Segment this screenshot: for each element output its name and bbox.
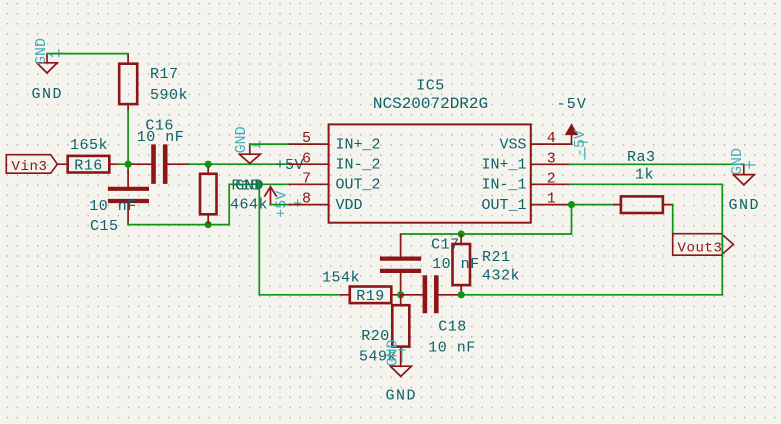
wire pin5 GND to IC [250, 143, 290, 145]
resistor R19 [322, 270, 400, 306]
wire Ra3 to Vout3 [672, 205, 674, 234]
wire OUT_1 down to C17 top rail [401, 205, 572, 234]
resistor R21 [453, 235, 521, 294]
svg-text:IN+_1: IN+_1 [481, 157, 526, 174]
svg-text:6: 6 [302, 150, 311, 167]
junction node A [125, 161, 132, 168]
svg-text:GND: GND [386, 387, 418, 404]
power -5V pin number 1 mark [580, 142, 588, 159]
junction R18 bottom node [205, 221, 212, 228]
svg-text:Vin3: Vin3 [12, 159, 48, 175]
pin 3 IN+_1 [481, 150, 570, 173]
svg-text:OUT_1: OUT_1 [481, 197, 526, 214]
svg-text:7: 7 [302, 170, 311, 187]
svg-text:R17: R17 [150, 66, 179, 83]
wire IC pin 1 to Ra3 [570, 204, 615, 206]
hierarchical label Vin3 [6, 155, 57, 175]
pin 7 OUT_2 [290, 170, 381, 193]
resistor R16 [58, 137, 119, 174]
capacitor C18 [401, 278, 476, 357]
svg-text:GND: GND [233, 126, 250, 153]
wire R16 to node A [118, 163, 133, 165]
svg-text:-5V: -5V [557, 96, 588, 113]
wire OUT_2 node down to feedback rail [259, 184, 341, 294]
svg-text:432k: 432k [482, 267, 520, 284]
svg-text:GND: GND [385, 339, 402, 366]
svg-text:10 nF: 10 nF [428, 340, 476, 357]
svg-text:GND: GND [32, 86, 64, 103]
svg-text:5: 5 [302, 130, 311, 147]
svg-text:R16: R16 [74, 157, 103, 174]
svg-text:C18: C18 [438, 319, 467, 336]
ground R20 pin number 1 mark [399, 349, 405, 363]
svg-text:8: 8 [302, 191, 311, 208]
capacitor C15 [89, 163, 147, 235]
ground right pin number 1 mark [744, 162, 755, 169]
svg-text:R19: R19 [356, 288, 385, 305]
svg-text:NCS20072DR2G: NCS20072DR2G [373, 95, 488, 113]
svg-text:590k: 590k [150, 87, 188, 104]
svg-text:165k: 165k [70, 137, 108, 154]
wire R17 bottom to node A [127, 111, 129, 170]
svg-text:4: 4 [547, 130, 556, 147]
resistor Ra3 [614, 196, 673, 213]
wire GND to R17 top [47, 54, 128, 57]
resistor R17 [119, 56, 188, 113]
wire +5V to IC pin 8 [271, 204, 290, 206]
junction OUT_1 node [568, 201, 575, 208]
junction OUT_2 node [256, 181, 263, 188]
pin 2 IN-_1 [481, 170, 570, 193]
resistor R18 [200, 164, 268, 223]
wire IC pin 3 to ground right [570, 163, 744, 165]
junction node B [205, 161, 212, 168]
junction R19-R20-C18 node [397, 291, 404, 298]
svg-text:Vout3: Vout3 [678, 240, 723, 256]
pin 4 VSS [499, 130, 571, 153]
resistor R20 [359, 296, 409, 367]
capacitor C17 [382, 235, 480, 294]
svg-text:VDD: VDD [336, 197, 363, 214]
svg-text:IN-_1: IN-_1 [481, 177, 526, 194]
wire OUT_2 node to IC pin 7 [259, 183, 290, 185]
svg-text:GND: GND [235, 177, 264, 194]
resistor Ra3 labels [627, 149, 656, 184]
svg-text:IC5: IC5 [416, 77, 445, 94]
ground at pin 3 right [733, 164, 754, 185]
ground at IC pin 5 [239, 144, 260, 163]
wire feedback rail to right [461, 294, 722, 296]
svg-text:464k: 464k [230, 196, 268, 213]
power +5V symbol at VDD [265, 187, 276, 205]
ground below R20 [390, 366, 411, 376]
ground top-left pin number 1 mark [51, 50, 65, 57]
svg-text:GND: GND [729, 197, 761, 214]
svg-text:10 nF: 10 nF [137, 129, 185, 146]
junction C17-R21 top node [458, 230, 465, 237]
pin 1 OUT_1 [481, 191, 570, 214]
svg-text:GND: GND [729, 148, 746, 175]
svg-text:2: 2 [547, 170, 556, 187]
wire IC pin 2 to right feedback rail [570, 184, 722, 294]
capacitor C16 [133, 118, 190, 182]
svg-text:GND: GND [33, 38, 50, 65]
svg-text:R21: R21 [482, 249, 511, 266]
ground pin5 pin number 1 mark [253, 141, 260, 147]
svg-text:10 nF: 10 nF [89, 198, 137, 215]
pin 5 IN+_2 [290, 130, 381, 153]
svg-text:OUT_2: OUT_2 [336, 177, 381, 194]
svg-text:-5V: -5V [572, 130, 589, 157]
svg-text:154k: 154k [322, 270, 360, 287]
ground top-left GND symbol [37, 55, 57, 73]
svg-text:1: 1 [547, 191, 556, 208]
svg-text:VSS: VSS [499, 136, 526, 153]
wire C15 bottom to R18 bottom rail [128, 223, 229, 225]
pin 6 IN-_2 [290, 150, 381, 173]
svg-text:10 nF: 10 nF [432, 256, 480, 273]
op-amp IC5 body [329, 77, 531, 222]
hierarchical label Vout3 [673, 233, 734, 256]
svg-text:IN+_2: IN+_2 [336, 136, 381, 153]
junction C18-R21 node [458, 291, 465, 298]
svg-text:IN-_2: IN-_2 [336, 157, 381, 174]
svg-text:+5V: +5V [276, 157, 305, 174]
svg-text:C15: C15 [90, 218, 119, 235]
wire C16 to IC pin 6 [189, 163, 290, 165]
power +5V pin number 1 mark [295, 200, 301, 206]
svg-text:3: 3 [547, 150, 556, 167]
pin 8 VDD [290, 191, 363, 214]
svg-text:1k: 1k [635, 167, 654, 184]
wire bottom rail up to OUT_2 node [229, 184, 259, 224]
power -5V symbol at VSS [557, 96, 588, 144]
svg-text:Ra3: Ra3 [627, 149, 656, 166]
